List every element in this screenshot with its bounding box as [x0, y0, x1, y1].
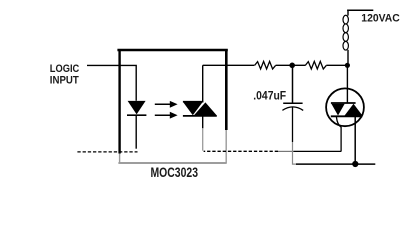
terminal stub 120VAC	[347, 9, 373, 11]
optocoupler U1 package box MOC3023	[117, 49, 227, 163]
capacitor C1 bottom plate (curved)	[282, 107, 303, 111]
wire opto to R1	[203, 64, 255, 66]
wire LED cathode down	[135, 116, 137, 149]
dashed wire LED return (left)	[77, 151, 137, 153]
svg-text:.047uF: .047uF	[253, 88, 286, 102]
node A junction dot	[345, 63, 350, 68]
triac gate lead	[336, 117, 341, 151]
light arrows	[155, 103, 171, 105]
triac Q1 symbol	[331, 102, 356, 104]
wire node A to triac MT2	[346, 65, 348, 102]
wire R2 to node A	[326, 64, 347, 66]
wire inductor to node A	[347, 50, 349, 63]
svg-text:120VAC: 120VAC	[361, 13, 400, 25]
inductor L1 (load coil)	[343, 15, 348, 50]
node B junction dot	[289, 63, 295, 69]
junction dot MT1/rail	[352, 161, 358, 167]
wire opto triac MT bottom	[202, 116, 204, 128]
svg-text:LOGIC: LOGIC	[50, 63, 80, 75]
wire capacitor to bottom rail	[292, 107, 294, 142]
LED D1 (emitter diode)	[128, 101, 146, 115]
resistor R1	[255, 61, 276, 69]
wire opto triac MT top	[202, 65, 204, 101]
resistor R2	[305, 61, 326, 69]
wire triac MT1 down	[354, 117, 356, 164]
triac Q1 circle	[326, 88, 364, 126]
wire node B to R2	[292, 64, 305, 66]
svg-text:MOC3023: MOC3023	[151, 165, 199, 180]
bottom rail wire	[296, 163, 375, 165]
svg-text:INPUT: INPUT	[50, 74, 79, 86]
opto triac output (detector)	[183, 101, 204, 103]
wire stub to inductor	[347, 10, 349, 15]
wire logic input to LED anode	[87, 65, 136, 100]
capacitor C1 top plate	[283, 102, 302, 104]
wire R1 to node B	[276, 64, 292, 66]
wire node B to capacitor	[292, 67, 294, 103]
wire gate to node	[294, 150, 342, 152]
dashed wire gate to opto pin4	[204, 150, 278, 152]
